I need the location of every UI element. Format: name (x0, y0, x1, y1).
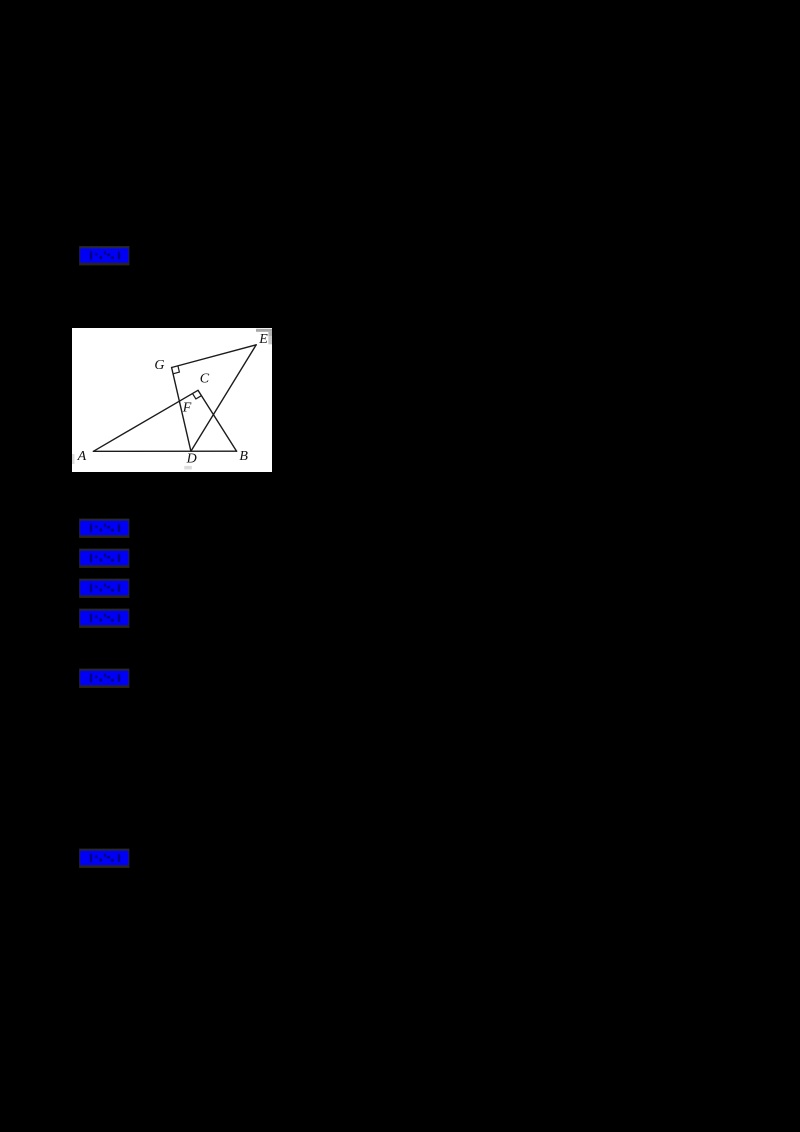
label 【考点】 2 (80, 851, 129, 866)
svg-text:A: A (77, 449, 87, 464)
svg-text:F: F (182, 400, 192, 415)
wire segment CB (198, 390, 237, 451)
right angle mark at C (193, 394, 202, 399)
label backing 7 (79, 849, 129, 868)
right angle mark at G (173, 366, 179, 374)
svg-text:E: E (258, 332, 268, 347)
label 【专题】 (80, 551, 129, 566)
wire segment DG (172, 368, 191, 452)
svg-text:G: G (154, 358, 164, 373)
label backing 4 (79, 579, 129, 598)
label 【点评】 2 (80, 671, 129, 686)
label 【解答】 (80, 611, 129, 626)
label backing 2 (79, 519, 129, 538)
svg-text:D: D (186, 452, 197, 467)
gray artifact below D (184, 466, 192, 470)
wire segment DE (191, 345, 256, 451)
label 【分析】 (80, 581, 129, 596)
svg-text:B: B (239, 449, 248, 464)
figure white background box (72, 328, 272, 472)
wire segment AC (93, 390, 198, 451)
gray artifact right column (268, 332, 272, 337)
svg-text:C: C (200, 372, 210, 387)
gray artifact right column lower (268, 336, 272, 344)
label 【点评】 1 (80, 248, 129, 263)
wire segment GE (172, 345, 257, 368)
gray artifact left edge strip (72, 454, 75, 464)
label backing 5 (79, 609, 129, 628)
wire segment AB (93, 450, 236, 452)
label 【考点】 (80, 521, 129, 536)
label backing 6 (79, 669, 129, 688)
label backing 1 (79, 246, 129, 265)
label backing 3 (79, 549, 129, 568)
gray artifact top-right horizontal (256, 329, 272, 332)
